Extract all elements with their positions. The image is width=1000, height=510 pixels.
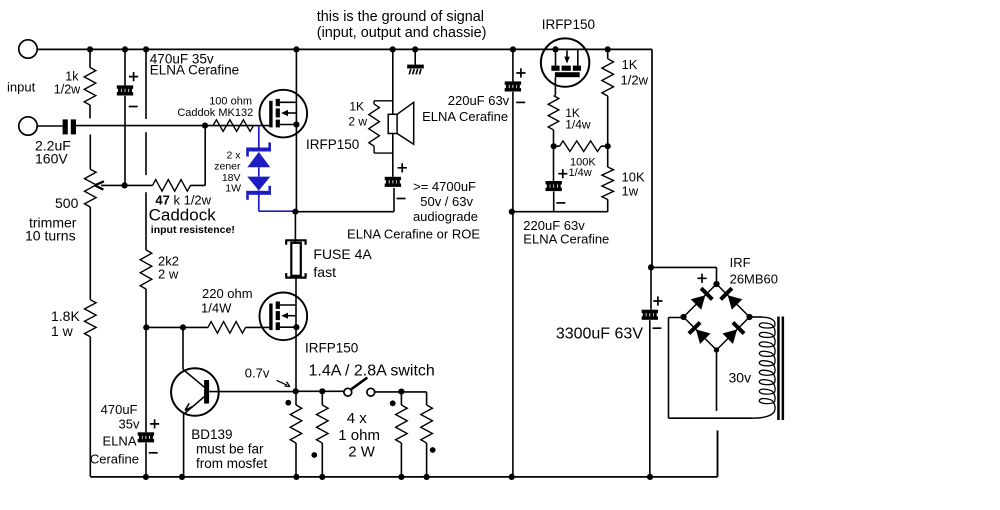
label C1 value — [35, 138, 71, 167]
label C5 value — [523, 218, 609, 247]
svg-text:4 x: 4 x — [347, 410, 368, 427]
resistor R13 1 ohm — [317, 391, 329, 476]
svg-text:(input, output and chassie): (input, output and chassie) — [317, 25, 487, 41]
svg-text:1/4W: 1/4W — [201, 301, 232, 316]
svg-text:1w: 1w — [622, 184, 639, 199]
svg-text:input: input — [7, 80, 36, 95]
wire output right segment — [509, 209, 608, 215]
capacitor C2 470uF 35v top — [117, 49, 138, 185]
label ground note — [317, 9, 487, 41]
svg-text:Cerafine: Cerafine — [90, 451, 139, 466]
transformer T1 secondary 30v — [669, 317, 785, 421]
svg-text:zener: zener — [214, 161, 241, 173]
label R6 value — [565, 106, 591, 132]
op... transistor Q1 IRFP150 upper left — [260, 90, 308, 138]
wire bridge negative to rail (with crossover gap) — [717, 350, 718, 477]
wire top ground rail — [37, 46, 652, 267]
svg-text:10K: 10K — [622, 170, 645, 185]
zener diodes D1 D2 2x 18V 1W — [246, 126, 293, 212]
input jack J1 (upper RCA) — [19, 40, 37, 58]
svg-text:Caddock: Caddock — [149, 206, 217, 225]
label 0.7v with arrow — [245, 365, 290, 386]
svg-text:0.7v: 0.7v — [245, 365, 270, 380]
resistor R1 1k 1/2w — [84, 49, 96, 119]
svg-text:1W: 1W — [225, 183, 241, 195]
svg-text:2 W: 2 W — [348, 444, 376, 461]
label R2 value — [149, 193, 235, 236]
svg-text:ELNA: ELNA — [103, 434, 137, 449]
stray dots — [285, 400, 435, 458]
svg-text:input resistence!: input resistence! — [151, 224, 235, 236]
label R3 value — [177, 96, 253, 120]
wire output line to C3 — [295, 188, 394, 212]
label P1 value — [25, 195, 79, 244]
svg-text:Caddok MK132: Caddok MK132 — [177, 107, 253, 119]
label R5 value — [621, 57, 649, 87]
wiper arrow of P1 — [95, 181, 125, 189]
svg-text:>= 4700uF: >= 4700uF — [413, 179, 476, 194]
svg-text:470uF: 470uF — [101, 402, 138, 417]
svg-text:35v: 35v — [119, 417, 140, 432]
capacitor C7 3300uF 63V — [642, 264, 663, 476]
svg-text:1 ohm: 1 ohm — [338, 427, 380, 444]
label R10 value — [51, 308, 80, 339]
label C3 value — [347, 179, 480, 242]
svg-text:ELNA Cerafine: ELNA Cerafine — [523, 231, 609, 246]
svg-text:2 w: 2 w — [158, 267, 179, 282]
label D1 D2 value — [214, 149, 241, 194]
label C2 value — [150, 51, 239, 77]
label bridge plus — [697, 274, 706, 283]
label F1 value — [313, 246, 372, 280]
capacitor C1 2.2uF 160V — [63, 119, 76, 134]
svg-text:10 turns: 10 turns — [25, 228, 76, 244]
label R4 value — [348, 99, 367, 128]
resistor R11 220 ohm 1/4W — [183, 322, 269, 334]
label C6 value — [90, 402, 140, 466]
node wiper junction — [122, 182, 128, 188]
capacitor C4 220uF 63v (left of pair) — [505, 49, 526, 477]
svg-text:from mosfet: from mosfet — [196, 456, 268, 471]
ground symbol (chassis) — [407, 49, 424, 74]
svg-text:IRFP150: IRFP150 — [542, 17, 595, 32]
label R12-R15 value — [338, 410, 380, 460]
capacitor C5 220uF 63v (right of pair) — [546, 169, 568, 212]
svg-text:IRF: IRF — [730, 255, 751, 270]
resistor R2 47k 1/2w — [125, 126, 206, 192]
svg-text:1.4A / 2.8A switch: 1.4A / 2.8A switch — [309, 363, 435, 380]
svg-text:2 x: 2 x — [226, 149, 241, 161]
label T1 secondary voltage — [729, 369, 752, 385]
label Q3 — [305, 341, 358, 356]
label input — [7, 80, 36, 95]
svg-text:1.8K: 1.8K — [51, 308, 80, 324]
label Q4 — [191, 427, 267, 471]
svg-text:220uF 63v: 220uF 63v — [448, 93, 510, 108]
wire bottom negative rail — [90, 431, 717, 481]
svg-text:50v / 63v: 50v / 63v — [420, 194, 473, 209]
svg-text:this is the ground of signal: this is the ground of signal — [317, 9, 484, 25]
wire signal line to gate of Q1 — [76, 123, 269, 129]
resistor R7 100K 1/4w — [551, 141, 611, 152]
svg-text:160V: 160V — [35, 151, 68, 167]
wire speaker to C3 — [392, 153, 394, 177]
resistor R14 1 ohm — [396, 392, 408, 477]
svg-text:500: 500 — [55, 195, 79, 211]
resistor R9 2k2 2w — [140, 250, 152, 327]
label R11 value — [201, 286, 253, 316]
fuse F1 4A — [285, 212, 306, 392]
svg-text:ELNA Cerafine or ROE: ELNA Cerafine or ROE — [347, 227, 480, 242]
svg-text:ELNA Cerafine: ELNA Cerafine — [422, 109, 508, 124]
resistor R15 1 ohm — [421, 392, 433, 477]
svg-text:1 w: 1 w — [51, 323, 74, 339]
svg-text:BD139: BD139 — [191, 427, 232, 442]
svg-text:1/2w: 1/2w — [54, 83, 81, 97]
label R9 value — [158, 254, 179, 282]
label SW1 — [309, 363, 435, 380]
resistor R5 1K 1/2w — [602, 49, 614, 146]
capacitor C3 >=4700uF — [385, 163, 407, 198]
label R8 value — [622, 170, 645, 199]
label C4 value — [422, 93, 510, 124]
capacitor C6 470uF 35v bottom — [138, 327, 160, 476]
transistor Q3 IRFP150 lower — [260, 293, 308, 341]
label Q2 — [542, 17, 595, 32]
label bridge part — [730, 255, 778, 286]
svg-text:FUSE 4A: FUSE 4A — [313, 246, 372, 262]
wire node 2k2/220ohm junction — [143, 324, 186, 369]
svg-text:1/2w: 1/2w — [621, 72, 649, 87]
label C7 value — [556, 326, 644, 343]
wire bridge positive feed — [651, 267, 717, 284]
svg-text:ELNA Cerafine: ELNA Cerafine — [150, 63, 239, 78]
svg-text:IRFP150: IRFP150 — [305, 341, 358, 356]
svg-text:3300uF 63V: 3300uF 63V — [556, 326, 644, 343]
svg-text:must be far: must be far — [196, 442, 264, 457]
resistor R4 1K 2w (across speaker) — [369, 101, 393, 153]
svg-text:26MB60: 26MB60 — [730, 271, 778, 286]
trimmer P1 500 10 turns — [85, 135, 97, 300]
resistor R10 1.8K 1w — [85, 300, 97, 477]
svg-text:IRFP150: IRFP150 — [306, 137, 359, 152]
resistor R3 100 ohm Caddok MK132 — [213, 120, 254, 132]
wire speaker branch from rail — [392, 49, 394, 114]
svg-text:30v: 30v — [729, 369, 752, 385]
wire branch x=146 with crossover gaps — [145, 49, 147, 250]
svg-text:1/4w: 1/4w — [565, 118, 591, 132]
svg-text:1K: 1K — [622, 57, 638, 72]
svg-text:2 w: 2 w — [348, 115, 367, 129]
label R1 value — [54, 70, 81, 97]
svg-text:audiograde: audiograde — [413, 209, 478, 224]
resistor R12 1 ohm — [290, 391, 302, 476]
transistor Q4 BD139 — [171, 368, 295, 476]
transistor Q2 IRFP150 upper right (rotated) — [541, 38, 589, 95]
svg-text:1K: 1K — [349, 99, 364, 113]
speaker LS1 — [388, 102, 414, 153]
node 0.7v line with switch SW1 — [293, 388, 427, 395]
resistor R8 10K 1w — [602, 146, 614, 212]
svg-text:1/4w: 1/4w — [569, 167, 592, 179]
label Q1 — [306, 137, 359, 152]
input jack J2 (lower RCA) — [19, 117, 37, 135]
svg-text:100 ohm: 100 ohm — [209, 96, 252, 108]
svg-text:220 ohm: 220 ohm — [202, 286, 253, 301]
switch SW1 1.4A/2.8A — [344, 378, 375, 397]
wire drain rail of Q1 down to output node — [292, 49, 298, 215]
resistor R6 1K 1/4w — [548, 96, 559, 181]
svg-text:1k: 1k — [65, 70, 79, 84]
bridge rectifier D3 IRF 26MB60 — [680, 281, 752, 353]
svg-text:fast: fast — [313, 264, 336, 280]
wire input to C1 — [37, 125, 62, 127]
label R7 value — [569, 157, 597, 180]
